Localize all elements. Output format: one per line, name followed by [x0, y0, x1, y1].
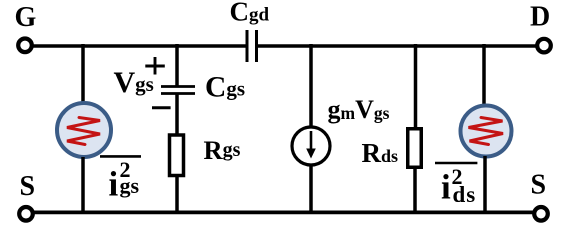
- terminal S right: [531, 170, 548, 221]
- svg-text:i: i: [441, 168, 451, 207]
- current source gmVgs: [292, 95, 390, 165]
- svg-text:i: i: [109, 165, 119, 204]
- wire bottom S to S: [33, 210, 534, 214]
- wire branch3 top: [309, 44, 313, 127]
- wire branch4 top: [414, 44, 418, 128]
- wire branch1 top: [81, 44, 85, 103]
- terminal G: [15, 2, 37, 52]
- capacitor Cgd: [230, 0, 270, 62]
- minus sign: [152, 106, 171, 109]
- svg-text:D: D: [530, 2, 550, 33]
- terminal S left: [19, 171, 35, 221]
- svg-text:Rgs: Rgs: [204, 135, 241, 165]
- noise source i2gs: [57, 103, 111, 157]
- resistor Rds: [362, 129, 422, 168]
- wire branch4 bottom: [413, 168, 417, 212]
- wire top-right segment Cgd to D: [258, 44, 537, 48]
- plus sign: [145, 57, 165, 75]
- svg-text:Cgs: Cgs: [205, 72, 245, 104]
- wire branch5 bottom: [483, 156, 487, 212]
- wire branch2 top: [175, 44, 179, 86]
- capacitor Cgs: [161, 72, 245, 104]
- wire branch1 bottom: [81, 157, 85, 212]
- terminal D: [530, 2, 551, 53]
- noise source i2ds: [461, 106, 512, 157]
- label i2gs with overbar: [100, 156, 141, 203]
- wire branch5 top: [482, 44, 486, 105]
- svg-text:S: S: [20, 171, 36, 202]
- resistor Rgs: [170, 135, 241, 176]
- svg-text:S: S: [531, 170, 547, 201]
- wire branch3 bottom: [309, 165, 313, 212]
- svg-text:G: G: [15, 2, 37, 33]
- wire branch2 bottom: [175, 176, 179, 212]
- label i2ds with overbar: [435, 163, 477, 207]
- wire branch2 middle: [175, 95, 179, 135]
- svg-text:Cgd: Cgd: [230, 0, 270, 27]
- svg-text:gs: gs: [120, 173, 140, 198]
- wire top-left segment G to Cgd: [32, 44, 246, 48]
- svg-text:ds: ds: [453, 182, 477, 207]
